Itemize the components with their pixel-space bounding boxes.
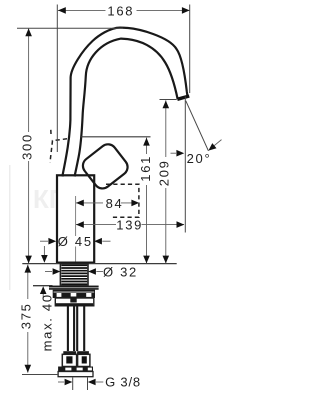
dim line 161: [146, 138, 148, 154]
375 bottom reference line: [22, 374, 58, 376]
dim 20deg angle line: [186, 101, 209, 151]
pipe end collars: [63, 351, 76, 354]
mounting nut: [53, 290, 95, 298]
dim G 3/8: [72, 378, 74, 391]
dim 161: reference line from spout: [81, 136, 151, 138]
svg-text:168: 168: [107, 3, 134, 18]
supply pipes: [68, 306, 84, 351]
extension line from outlet down (for 139 and 20deg): [184, 97, 186, 233]
svg-text:Ø 32: Ø 32: [103, 264, 138, 279]
dim line 84: [76, 202, 103, 204]
handle lever: [80, 141, 131, 192]
dim line 168: [58, 9, 190, 11]
pipe end blocks: [62, 354, 90, 366]
dim Ø45: [40, 240, 48, 242]
svg-text:max. 40: max. 40: [40, 293, 55, 351]
dashed handle-up outline: [50, 128, 67, 163]
svg-text:300: 300: [20, 133, 35, 160]
dim line 300: [28, 28, 30, 132]
spout tube outer edge: [62, 28, 187, 177]
svg-text:161: 161: [138, 155, 153, 182]
deck top line: [22, 263, 176, 265]
spout tube inner edge: [75, 39, 178, 177]
dim Ø32: [45, 271, 52, 273]
dim 209: reference line at outlet: [160, 99, 177, 101]
top reference line (spout top): [17, 27, 123, 29]
svg-text:209: 209: [157, 159, 172, 186]
dim line 139: [76, 224, 116, 226]
svg-text:375: 375: [19, 302, 34, 329]
watermark: [10, 165, 68, 290]
svg-text:84: 84: [106, 196, 124, 211]
20deg slant arrow: [211, 140, 222, 149]
dashed handle-down outline: [106, 184, 139, 217]
deck bottom line: [33, 285, 53, 287]
svg-text:Ø 45: Ø 45: [58, 234, 93, 249]
mounting flange: [49, 286, 99, 290]
dim max. 40: [43, 246, 45, 256]
dim line 209: [165, 100, 167, 157]
threaded shank: [60, 264, 88, 286]
svg-text:20°: 20°: [187, 151, 212, 166]
svg-text:139: 139: [116, 218, 143, 233]
faucet body: [57, 175, 94, 262]
extension line right (spout tip): [189, 5, 191, 94]
adapter block: [55, 297, 94, 307]
aerator cap: [177, 96, 189, 99]
base bar: [58, 367, 93, 377]
dim 375: [27, 265, 29, 299]
20deg horizontal arrow: [171, 152, 177, 154]
extension line left (body left edge up): [56, 5, 58, 153]
svg-text:G 3/8: G 3/8: [105, 374, 141, 389]
centerline of body (for 84/139): [75, 196, 77, 236]
